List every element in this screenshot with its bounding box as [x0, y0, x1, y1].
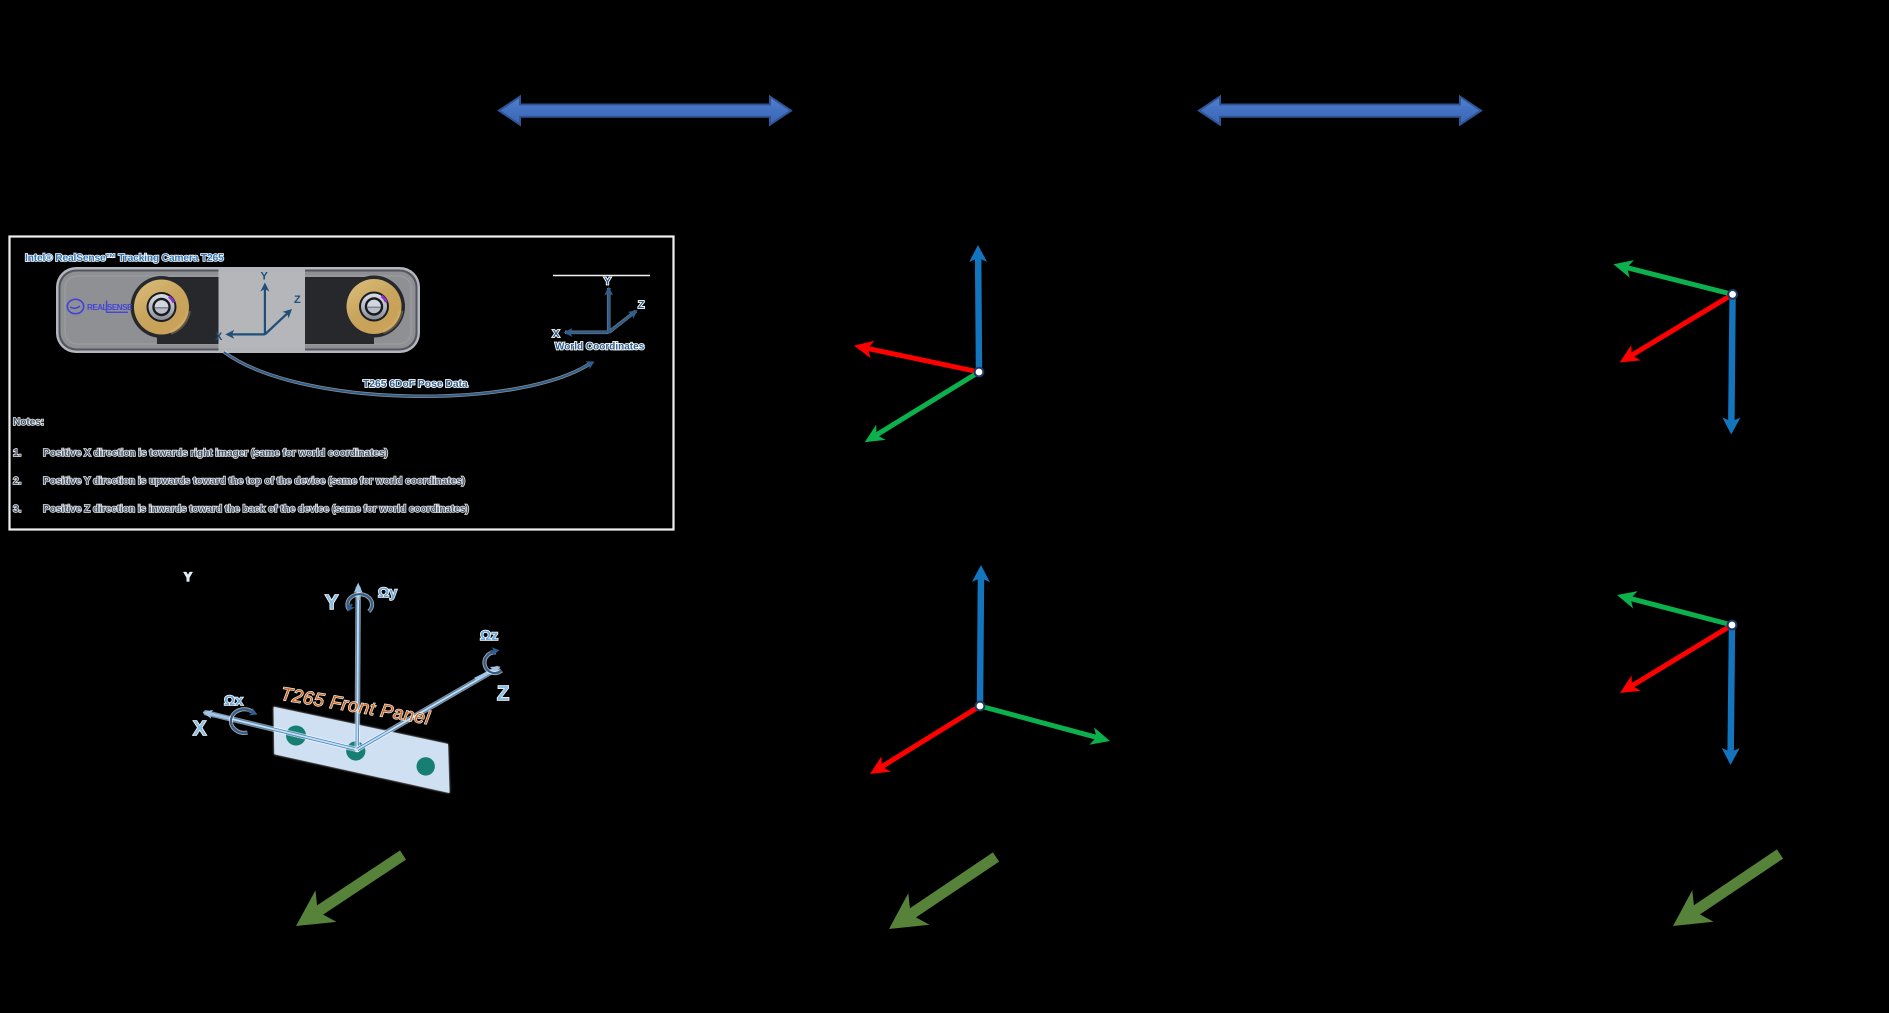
triad B blue up arrow	[972, 565, 990, 706]
world axis Y	[604, 287, 613, 333]
svg-text:Z: Z	[638, 299, 645, 311]
svg-text:X: X	[193, 718, 207, 740]
svg-text:X: X	[553, 328, 560, 340]
world coordinates top line	[553, 275, 650, 277]
omega-y arc head	[348, 603, 355, 612]
triad C red arrow	[1620, 292, 1734, 362]
svg-text:Y: Y	[261, 271, 269, 283]
notes heading	[13, 417, 469, 515]
blue double arrow left	[499, 97, 791, 125]
triad C origin dot	[1728, 290, 1737, 299]
svg-text:1.: 1.	[13, 448, 22, 459]
camera center light band	[219, 269, 306, 351]
omega-z rotation arc	[484, 652, 501, 673]
sketch X axis head	[203, 710, 231, 720]
svg-text:Ωy: Ωy	[378, 584, 397, 600]
world axis X	[564, 328, 609, 337]
sketch Y axis head	[354, 583, 363, 601]
svg-text:Notes:: Notes:	[13, 417, 44, 428]
sketch labels	[184, 570, 509, 740]
RealSense logo on camera	[67, 299, 133, 313]
T265 6DoF pose data curved arrow	[224, 352, 591, 396]
olive arrow right	[1673, 849, 1783, 926]
svg-text:World Coordinates: World Coordinates	[555, 342, 645, 353]
svg-text:Y: Y	[184, 570, 192, 584]
camera right dark panel	[305, 276, 405, 345]
omega-x rotation arc	[231, 709, 252, 733]
omega-x arc head	[246, 708, 258, 716]
olive arrow left	[296, 850, 406, 926]
omega-y rotation arc	[347, 594, 372, 611]
triad D red arrow	[1620, 623, 1733, 693]
camera axis Z	[264, 309, 292, 335]
sketch Y axis	[357, 589, 358, 750]
camera left dark panel	[131, 276, 219, 344]
svg-text:3.: 3.	[13, 504, 22, 515]
camera axis Y	[260, 283, 269, 335]
olive arrow middle	[889, 852, 999, 929]
camera right lens	[345, 277, 404, 336]
sketch Z axis	[357, 669, 497, 750]
T265 front panel plate	[274, 707, 450, 793]
triad D origin dot	[1728, 621, 1737, 630]
svg-text:REALSENSE: REALSENSE	[87, 303, 133, 312]
sketch X axis	[206, 713, 357, 750]
triad D green arrow	[1617, 591, 1733, 627]
blue double arrow right	[1199, 97, 1481, 125]
svg-text:Positive X direction is toward: Positive X direction is towards right im…	[43, 448, 388, 459]
triad A origin dot	[975, 368, 984, 377]
svg-text:Ωz: Ωz	[480, 627, 498, 643]
camera left lens	[132, 278, 191, 337]
svg-text:Y: Y	[604, 276, 611, 288]
svg-text:2.: 2.	[13, 476, 22, 487]
svg-text:Positive Z direction is inward: Positive Z direction is inwards toward t…	[43, 504, 469, 515]
camera axes labels	[215, 271, 301, 344]
triad C blue down arrow	[1722, 294, 1740, 434]
world coordinates labels	[553, 276, 646, 353]
triad C green arrow	[1613, 260, 1733, 297]
panel teal dot left	[286, 726, 306, 746]
camera axis X	[225, 330, 265, 339]
pose arrow head	[580, 361, 595, 370]
svg-text:T265 6DoF Pose Data: T265 6DoF Pose Data	[363, 379, 468, 390]
svg-text:Positive Y direction is upward: Positive Y direction is upwards toward t…	[43, 476, 465, 487]
triad A red X-left arrow	[854, 341, 980, 375]
triad D blue down arrow	[1722, 625, 1740, 765]
svg-text:Ωx: Ωx	[224, 692, 243, 708]
svg-text:Z: Z	[497, 683, 509, 705]
triad B origin dot	[976, 702, 985, 711]
triad A green Z-out arrow	[865, 370, 981, 442]
svg-text:X: X	[215, 331, 223, 343]
panel teal dot center	[346, 741, 365, 760]
omega-z arc head	[490, 647, 500, 655]
svg-text:Y: Y	[325, 592, 339, 614]
svg-text:Z: Z	[294, 294, 301, 306]
panel teal dot right	[417, 757, 435, 775]
triad B red arrow	[870, 704, 981, 774]
triad B green arrow	[979, 704, 1110, 745]
triad A blue Y-up arrow	[969, 245, 987, 372]
figure box frame	[10, 237, 674, 530]
sketch Z axis head	[474, 667, 500, 681]
svg-text:Intel® RealSense™ Tracking Cam: Intel® RealSense™ Tracking Camera T265	[25, 253, 224, 264]
world axis Z	[608, 310, 638, 333]
camera T265 body	[56, 267, 420, 353]
